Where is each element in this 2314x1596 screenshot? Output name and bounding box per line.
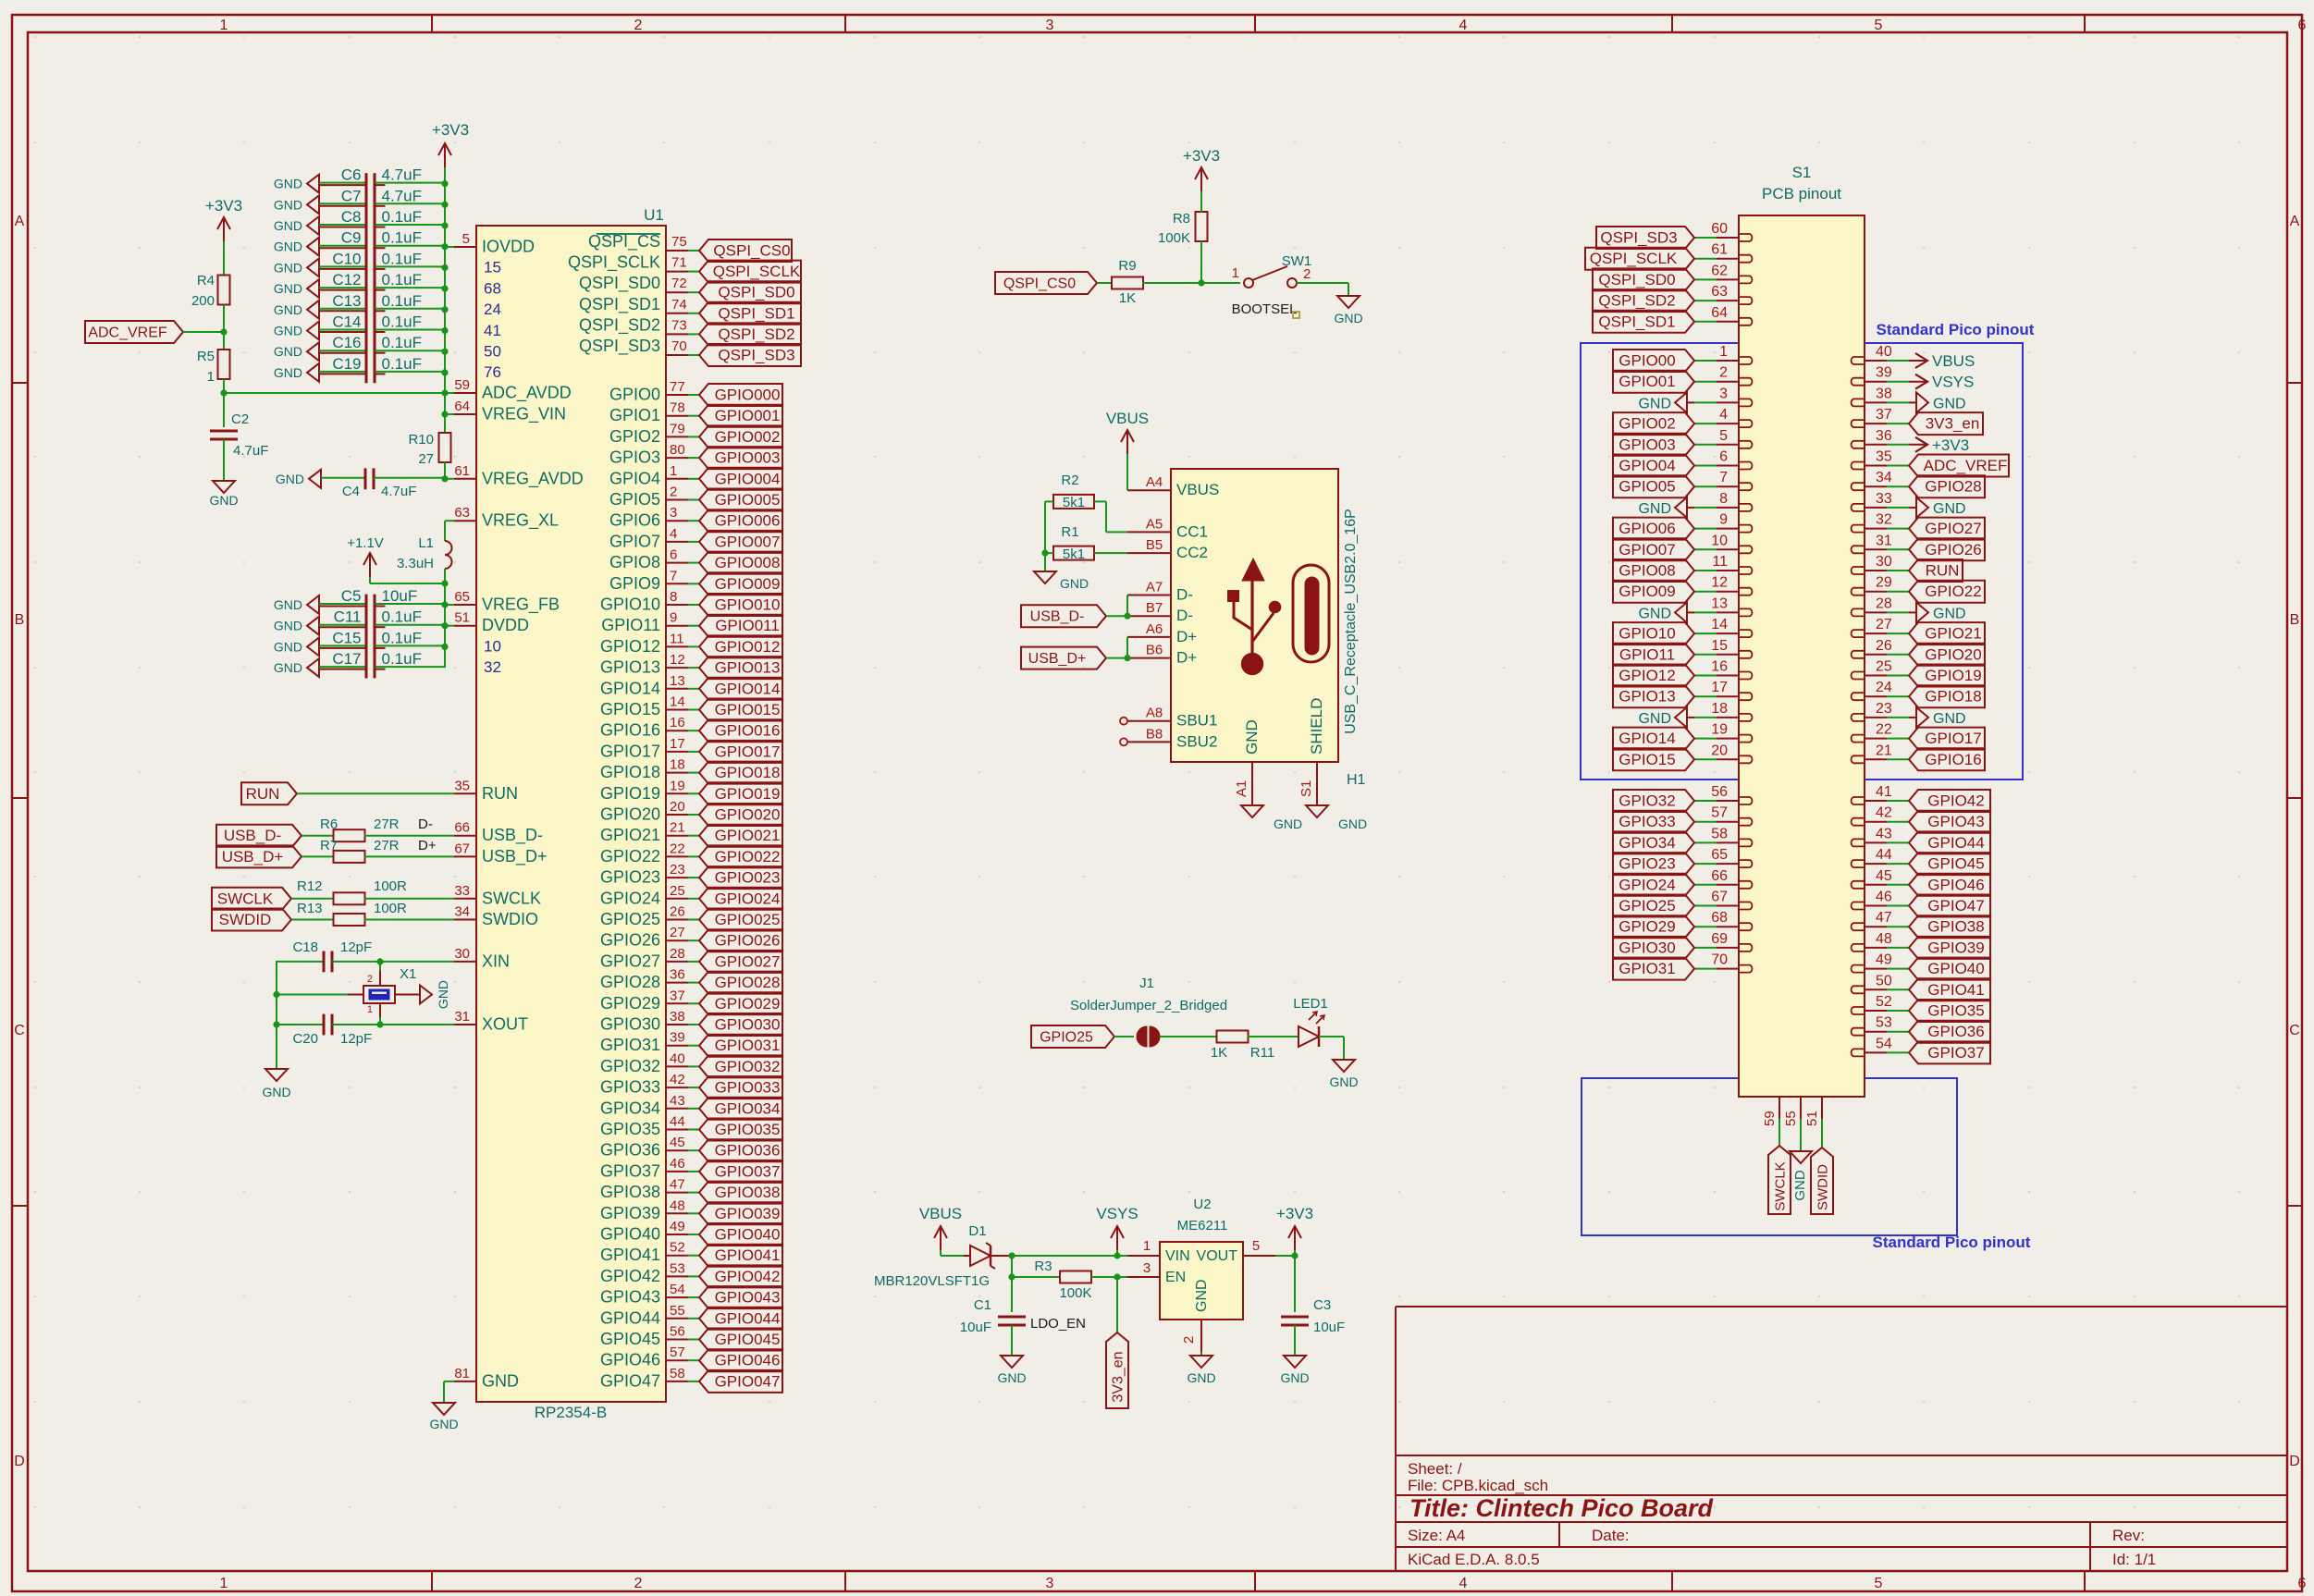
svg-text:34: 34 xyxy=(454,904,470,920)
svg-text:GPIO037: GPIO037 xyxy=(715,1162,781,1180)
U1 pin 35 RUN xyxy=(454,792,476,794)
svg-text:27R: 27R xyxy=(374,816,400,832)
svg-text:GPIO5: GPIO5 xyxy=(609,490,660,509)
svg-text:GND: GND xyxy=(274,597,302,612)
U2 pin 5 VOUT xyxy=(1243,1255,1275,1257)
svg-text:GPIO047: GPIO047 xyxy=(715,1372,781,1390)
svg-text:QSPI_SD0: QSPI_SD0 xyxy=(1598,271,1675,289)
svg-text:CC2: CC2 xyxy=(1176,544,1208,561)
svg-text:R12: R12 xyxy=(297,878,323,894)
svg-text:GPIO11: GPIO11 xyxy=(601,616,660,634)
svg-text:59: 59 xyxy=(454,377,470,393)
svg-text:1K: 1K xyxy=(1211,1045,1227,1061)
svg-text:QSPI_SD1: QSPI_SD1 xyxy=(718,304,794,322)
U1 pin 57 GPIO46 with label GPIO046 xyxy=(666,1359,688,1361)
svg-text:GPIO0: GPIO0 xyxy=(609,386,660,404)
H1 pin A1 GND xyxy=(1251,762,1253,805)
svg-text:46: 46 xyxy=(670,1156,685,1172)
S1 pin 42 label GPIO43 xyxy=(1865,821,1887,823)
U1 pin 75 QSPI_CS with label QSPI_CS0 xyxy=(666,250,688,252)
svg-text:A7: A7 xyxy=(1146,580,1163,595)
U1 pin 14 GPIO15 with label GPIO015 xyxy=(666,709,688,711)
svg-text:VBUS: VBUS xyxy=(1932,352,1975,370)
U1 pin 63 VREG_XL xyxy=(454,520,476,522)
svg-text:QSPI_CS0: QSPI_CS0 xyxy=(1003,276,1076,292)
U1 pin 38 GPIO30 with label GPIO030 xyxy=(666,1024,688,1025)
U1 pin 73 QSPI_SD2 with label QSPI_SD2 xyxy=(666,333,688,335)
svg-text:GPIO001: GPIO001 xyxy=(715,407,781,424)
svg-text:GPIO012: GPIO012 xyxy=(715,638,781,656)
svg-text:11: 11 xyxy=(1712,554,1728,570)
svg-text:75: 75 xyxy=(671,234,687,250)
svg-text:R2: R2 xyxy=(1061,473,1078,488)
svg-text:32: 32 xyxy=(1876,512,1892,528)
U1 pin 46 GPIO37 with label GPIO037 xyxy=(666,1171,688,1172)
resistor R3 100K xyxy=(1060,1271,1091,1283)
svg-text:GPIO040: GPIO040 xyxy=(715,1226,781,1244)
svg-text:GPIO16: GPIO16 xyxy=(1925,751,1981,768)
svg-text:R3: R3 xyxy=(1034,1258,1052,1274)
svg-text:C8: C8 xyxy=(341,208,362,226)
S1 pin 37 label 3V3_en xyxy=(1865,423,1887,424)
svg-text:55: 55 xyxy=(670,1303,685,1319)
wire VREG_VIN row xyxy=(445,413,454,415)
S1 pin 55 GND xyxy=(1800,1097,1802,1119)
capacitor C13 0.1uF xyxy=(307,301,319,319)
inductor L1 3.3uH xyxy=(445,541,452,569)
svg-text:GND: GND xyxy=(1194,1279,1210,1312)
blue box Standard Pico pinout (top) xyxy=(1581,343,2023,780)
label ADC_VREF xyxy=(85,321,183,343)
svg-text:1: 1 xyxy=(207,369,215,385)
svg-text:63: 63 xyxy=(454,505,470,521)
label 3V3_en (vertical) xyxy=(1106,1332,1128,1408)
svg-text:GPIO029: GPIO029 xyxy=(715,995,781,1013)
H1 no-connect SBU2 xyxy=(1120,738,1127,745)
svg-text:11: 11 xyxy=(670,631,684,646)
svg-text:GPIO05: GPIO05 xyxy=(1619,478,1675,496)
svg-text:Date:: Date: xyxy=(1592,1527,1630,1544)
svg-text:C13: C13 xyxy=(332,292,361,310)
svg-text:GPIO31: GPIO31 xyxy=(600,1036,660,1054)
svg-text:48: 48 xyxy=(670,1197,685,1213)
S1 pin 27 label GPIO21 xyxy=(1865,632,1887,634)
svg-text:VSYS: VSYS xyxy=(1932,374,1974,391)
svg-text:10uF: 10uF xyxy=(382,587,418,605)
svg-text:78: 78 xyxy=(670,400,685,416)
svg-text:GPIO8: GPIO8 xyxy=(609,553,660,571)
U1 pin 47 GPIO38 with label GPIO038 xyxy=(666,1192,688,1194)
S1 pin 50 label GPIO41 xyxy=(1865,988,1887,990)
svg-text:GPIO021: GPIO021 xyxy=(715,827,781,844)
svg-text:73: 73 xyxy=(671,317,687,333)
S1 pin 57 label GPIO33 xyxy=(1717,821,1739,823)
wire R5 to ADC_AVDD xyxy=(223,379,225,393)
S1 pin 6 label GPIO04 xyxy=(1717,465,1739,467)
svg-text:GPIO034: GPIO034 xyxy=(715,1099,781,1117)
power +3V3 (R4) xyxy=(223,217,225,241)
svg-text:12pF: 12pF xyxy=(340,1031,372,1047)
svg-text:GPIO07: GPIO07 xyxy=(1619,541,1675,559)
U1 pin 28 GPIO27 with label GPIO027 xyxy=(666,961,688,963)
wire EN to 3V3_en xyxy=(1116,1277,1118,1332)
svg-text:GND: GND xyxy=(274,281,302,296)
svg-text:MBR120VLSFT1G: MBR120VLSFT1G xyxy=(874,1273,990,1289)
U1 pin 53 GPIO42 with label GPIO042 xyxy=(666,1275,688,1277)
S1 pin 10 label GPIO07 xyxy=(1717,548,1739,550)
svg-text:25: 25 xyxy=(670,883,685,899)
svg-text:1: 1 xyxy=(670,463,677,479)
U1 pin 64 VREG_VIN xyxy=(454,413,476,415)
svg-text:GPIO14: GPIO14 xyxy=(600,679,660,697)
svg-text:GND: GND xyxy=(209,493,238,508)
wire C1 down xyxy=(1011,1277,1013,1312)
crystal left wire xyxy=(277,994,348,996)
svg-text:GPIO9: GPIO9 xyxy=(609,574,660,593)
svg-text:64: 64 xyxy=(454,399,470,414)
S1 pin 38 ground xyxy=(1865,401,1887,403)
svg-text:X1: X1 xyxy=(400,966,416,982)
U1 pin 70 QSPI_SD3 with label QSPI_SD3 xyxy=(666,354,688,356)
svg-text:GPIO03: GPIO03 xyxy=(1619,436,1675,453)
S1 pin 11 label GPIO08 xyxy=(1717,570,1739,571)
label SWDID (U1) xyxy=(212,909,291,931)
svg-text:GPIO025: GPIO025 xyxy=(715,911,781,928)
svg-text:GPIO47: GPIO47 xyxy=(1927,897,1984,915)
svg-text:Id: 1/1: Id: 1/1 xyxy=(2112,1551,2156,1568)
svg-text:GPIO29: GPIO29 xyxy=(1619,918,1675,936)
svg-text:GPIO013: GPIO013 xyxy=(715,659,781,677)
svg-text:GPIO25: GPIO25 xyxy=(1040,1030,1093,1046)
svg-text:27R: 27R xyxy=(374,838,400,853)
svg-text:67: 67 xyxy=(1711,890,1728,905)
svg-text:GPIO15: GPIO15 xyxy=(600,700,660,718)
svg-text:GPIO11: GPIO11 xyxy=(1619,645,1675,663)
svg-text:D+: D+ xyxy=(1176,628,1197,645)
svg-text:GPIO20: GPIO20 xyxy=(1925,645,1981,663)
svg-text:43: 43 xyxy=(1876,826,1892,841)
label SWCLK (U1) xyxy=(212,888,291,910)
S1 pin 12 label GPIO09 xyxy=(1717,591,1739,593)
svg-text:GPIO031: GPIO031 xyxy=(715,1037,781,1054)
svg-text:GPIO028: GPIO028 xyxy=(715,974,781,991)
svg-text:File: CPB.kicad_sch: File: CPB.kicad_sch xyxy=(1408,1477,1548,1494)
svg-text:GPIO043: GPIO043 xyxy=(715,1289,781,1307)
svg-text:RP2354-B: RP2354-B xyxy=(535,1404,607,1421)
svg-text:GND: GND xyxy=(274,639,302,654)
svg-text:0.1uF: 0.1uF xyxy=(382,355,422,373)
svg-text:A6: A6 xyxy=(1146,621,1163,637)
U1 pin 33 SWCLK xyxy=(454,898,476,900)
svg-text:68: 68 xyxy=(1711,910,1728,926)
svg-text:GPIO45: GPIO45 xyxy=(1927,855,1984,873)
svg-text:GPIO00: GPIO00 xyxy=(1619,352,1675,370)
svg-text:GPIO039: GPIO039 xyxy=(715,1205,781,1222)
svg-text:2: 2 xyxy=(1181,1336,1197,1344)
switch SW1 BOOTSEL xyxy=(1244,278,1253,288)
wire VBUS to D1 xyxy=(940,1250,942,1256)
svg-text:SHIELD: SHIELD xyxy=(1308,698,1325,755)
svg-text:GPIO26: GPIO26 xyxy=(1925,541,1981,559)
svg-text:GPIO02: GPIO02 xyxy=(1619,415,1675,433)
crystal riser wire xyxy=(276,961,277,1069)
svg-text:D-: D- xyxy=(1176,586,1193,604)
S1 pin 2 label GPIO01 xyxy=(1717,381,1739,383)
svg-text:69: 69 xyxy=(1711,931,1728,947)
U1 pin 81 GND xyxy=(454,1381,476,1382)
svg-text:0.1uF: 0.1uF xyxy=(382,292,422,310)
svg-text:1: 1 xyxy=(1232,265,1239,281)
svg-text:77: 77 xyxy=(670,379,685,395)
svg-text:GPIO09: GPIO09 xyxy=(1619,583,1675,600)
svg-text:41: 41 xyxy=(484,322,501,339)
svg-text:BOOTSEL: BOOTSEL xyxy=(1232,301,1298,317)
svg-text:2: 2 xyxy=(634,1576,643,1591)
wire USB_D- xyxy=(1106,615,1127,617)
svg-text:GPIO27: GPIO27 xyxy=(600,951,660,970)
H1 pin A7 D- xyxy=(1127,595,1171,596)
wire VBUS xyxy=(1126,454,1128,490)
wire down to C2 xyxy=(223,393,225,427)
U1 pin 54 GPIO43 with label GPIO043 xyxy=(666,1296,688,1298)
svg-text:GPIO45: GPIO45 xyxy=(600,1330,660,1348)
S1 pin 69 label GPIO30 xyxy=(1717,947,1739,949)
svg-text:GPIO39: GPIO39 xyxy=(600,1204,660,1222)
wire GPIO25 to J1 xyxy=(1114,1036,1134,1037)
U1 pin 12 GPIO13 with label GPIO013 xyxy=(666,667,688,669)
svg-text:21: 21 xyxy=(1876,743,1892,758)
capacitor C3 10uF xyxy=(1281,1316,1309,1319)
capacitor C12 0.1uF xyxy=(307,279,319,298)
svg-text:8: 8 xyxy=(670,589,677,605)
svg-text:24: 24 xyxy=(484,301,501,318)
svg-text:GPIO24: GPIO24 xyxy=(600,889,660,907)
svg-text:QSPI_SD1: QSPI_SD1 xyxy=(1598,313,1675,330)
svg-text:41: 41 xyxy=(1876,784,1892,800)
wire C1 to GND xyxy=(1011,1325,1013,1356)
svg-text:GPIO25: GPIO25 xyxy=(1619,897,1675,915)
svg-text:15: 15 xyxy=(484,259,501,276)
svg-text:VREG_AVDD: VREG_AVDD xyxy=(482,469,584,488)
svg-text:VIN: VIN xyxy=(1165,1248,1190,1264)
svg-text:20: 20 xyxy=(670,799,685,815)
ground (CC pulldown) xyxy=(1034,571,1056,583)
svg-text:C6: C6 xyxy=(341,166,362,184)
svg-text:L1: L1 xyxy=(418,535,434,551)
svg-text:10: 10 xyxy=(484,637,501,655)
S1 pin 33 ground xyxy=(1865,507,1887,509)
resistor R9 1K xyxy=(1112,277,1143,289)
wire bus to VREG xyxy=(444,373,446,433)
H1 no-connect SBU1 xyxy=(1120,718,1127,725)
svg-text:GPIO045: GPIO045 xyxy=(715,1331,781,1348)
power +3V3 (bootsel) xyxy=(1200,167,1202,191)
wire crystal bottom xyxy=(379,1017,381,1025)
USB logo xyxy=(1241,653,1263,675)
U1 pin 5 IOVDD xyxy=(454,246,476,248)
H1 pin A8 SBU1 xyxy=(1127,720,1171,722)
svg-text:VREG_VIN: VREG_VIN xyxy=(482,405,566,424)
svg-text:GPIO018: GPIO018 xyxy=(715,764,781,781)
svg-text:5: 5 xyxy=(1252,1238,1260,1254)
S1 pin 64 label QSPI_SD1 xyxy=(1717,321,1739,323)
svg-text:GPIO006: GPIO006 xyxy=(715,512,781,530)
svg-text:S1: S1 xyxy=(1299,780,1314,797)
wire VOUT xyxy=(1275,1255,1295,1257)
svg-text:SWCLK: SWCLK xyxy=(482,889,541,907)
svg-text:B7: B7 xyxy=(1146,600,1163,616)
resistor R12 100R xyxy=(291,898,334,900)
S1 pin 65 label GPIO23 xyxy=(1717,863,1739,865)
diode D1 MBR120VLSFT1G xyxy=(970,1246,991,1266)
svg-text:39: 39 xyxy=(1876,365,1892,381)
S1 pin 66 label GPIO24 xyxy=(1717,884,1739,886)
svg-text:GND: GND xyxy=(274,619,302,633)
svg-text:4.7uF: 4.7uF xyxy=(233,443,268,459)
U1 pin 72 QSPI_SD0 with label QSPI_SD0 xyxy=(666,291,688,293)
S1 pin 48 label GPIO39 xyxy=(1865,947,1887,949)
ground (crystal caps) xyxy=(265,1069,288,1081)
svg-text:GND: GND xyxy=(1274,816,1302,831)
U1 pin 51 DVDD xyxy=(454,625,476,627)
svg-text:GPIO007: GPIO007 xyxy=(715,533,781,550)
svg-text:A5: A5 xyxy=(1146,516,1163,532)
svg-text:30: 30 xyxy=(454,946,470,962)
svg-text:B6: B6 xyxy=(1146,643,1163,658)
svg-text:GPIO24: GPIO24 xyxy=(1619,876,1675,893)
svg-text:9: 9 xyxy=(670,610,677,626)
svg-text:18: 18 xyxy=(1711,701,1728,717)
S1 pin 3 ground xyxy=(1717,401,1739,403)
svg-text:GPIO36: GPIO36 xyxy=(1927,1023,1984,1040)
svg-text:10uF: 10uF xyxy=(1313,1320,1345,1335)
svg-text:D: D xyxy=(14,1454,25,1469)
wire U2 GND down xyxy=(1200,1352,1202,1356)
svg-text:RUN: RUN xyxy=(1926,562,1960,580)
U1 pin 19 GPIO19 with label GPIO019 xyxy=(666,792,688,794)
svg-text:GPIO020: GPIO020 xyxy=(715,806,781,824)
svg-text:6: 6 xyxy=(670,547,677,563)
S1 pin 46 label GPIO47 xyxy=(1865,905,1887,907)
svg-text:SWCLK: SWCLK xyxy=(217,890,274,907)
S1 pin 23 ground xyxy=(1865,717,1887,718)
svg-text:GND: GND xyxy=(1933,501,1966,517)
S1 pin 16 label GPIO12 xyxy=(1717,675,1739,677)
svg-text:SWCLK: SWCLK xyxy=(1773,1161,1789,1210)
S1 pin 58 label GPIO34 xyxy=(1717,841,1739,843)
svg-text:79: 79 xyxy=(670,421,685,436)
title block xyxy=(1395,1307,1397,1571)
U1 pin 3 GPIO6 with label GPIO006 xyxy=(666,520,688,522)
svg-text:5k1: 5k1 xyxy=(1063,546,1085,562)
S1 pin 24 label GPIO18 xyxy=(1865,695,1887,697)
svg-text:45: 45 xyxy=(670,1135,685,1150)
svg-text:GPIO34: GPIO34 xyxy=(600,1099,660,1117)
svg-text:C10: C10 xyxy=(332,250,361,267)
svg-text:1: 1 xyxy=(1143,1238,1151,1254)
svg-text:QSPI_SD0: QSPI_SD0 xyxy=(718,284,794,301)
frame reference labels xyxy=(431,15,433,32)
capacitor C10 0.1uF xyxy=(307,258,319,276)
svg-text:43: 43 xyxy=(670,1093,685,1109)
wire to R9 xyxy=(1097,282,1113,284)
S1 pin 4 label GPIO02 xyxy=(1717,423,1739,424)
U1 pin 13 GPIO14 with label GPIO014 xyxy=(666,688,688,690)
svg-text:GPIO3: GPIO3 xyxy=(609,448,660,467)
svg-text:22: 22 xyxy=(670,841,685,856)
svg-text:Standard Pico pinout: Standard Pico pinout xyxy=(1873,1234,2031,1251)
svg-text:21: 21 xyxy=(670,820,685,836)
svg-text:GPIO36: GPIO36 xyxy=(600,1141,660,1160)
U1 pin 43 GPIO34 with label GPIO034 xyxy=(666,1108,688,1110)
svg-text:B: B xyxy=(15,612,25,628)
wire LED1 to GND xyxy=(1319,1036,1344,1037)
svg-text:DVDD: DVDD xyxy=(482,616,529,634)
S1 pin 43 label GPIO44 xyxy=(1865,841,1887,843)
svg-text:VBUS: VBUS xyxy=(1106,410,1149,427)
S1 pin 51 SWDID xyxy=(1821,1097,1823,1119)
U1 pin 66 USB_D- xyxy=(454,835,476,837)
svg-text:C2: C2 xyxy=(231,411,249,427)
svg-text:R5: R5 xyxy=(197,349,215,364)
svg-text:61: 61 xyxy=(454,463,470,479)
svg-text:QSPI_SD0: QSPI_SD0 xyxy=(579,274,660,293)
H1 pin A4 VBUS xyxy=(1127,489,1171,491)
svg-text:+3V3: +3V3 xyxy=(205,197,242,215)
wire R1 left xyxy=(1045,552,1053,554)
svg-text:6: 6 xyxy=(1719,449,1728,465)
resistor R10 xyxy=(439,433,451,462)
svg-text:100K: 100K xyxy=(1059,1285,1091,1301)
svg-text:10uF: 10uF xyxy=(960,1320,991,1335)
ground (S1) xyxy=(1790,1151,1812,1163)
svg-text:GPIO35: GPIO35 xyxy=(600,1120,660,1138)
wire VSYS xyxy=(1116,1250,1118,1256)
svg-text:6: 6 xyxy=(2298,18,2307,33)
S1 pin 47 label GPIO38 xyxy=(1865,926,1887,927)
svg-text:70: 70 xyxy=(671,338,687,354)
S1 pin 52 label GPIO35 xyxy=(1865,1010,1887,1012)
IC U2 ME6211 body xyxy=(1160,1242,1243,1320)
svg-text:H1: H1 xyxy=(1347,772,1366,788)
capacitor C8 0.1uF xyxy=(307,216,319,235)
svg-text:ADC_VREF: ADC_VREF xyxy=(88,325,167,341)
wire VREG_XL to L1 xyxy=(445,520,454,522)
svg-text:55: 55 xyxy=(1783,1111,1799,1126)
svg-text:GPIO010: GPIO010 xyxy=(715,596,781,614)
svg-text:C15: C15 xyxy=(332,629,361,646)
U1 pin 8 GPIO10 with label GPIO010 xyxy=(666,604,688,606)
U1 pin 44 GPIO35 with label GPIO035 xyxy=(666,1129,688,1131)
svg-text:44: 44 xyxy=(1876,847,1892,863)
svg-text:USB_D+: USB_D+ xyxy=(222,848,284,866)
svg-text:4.7uF: 4.7uF xyxy=(381,484,416,499)
svg-text:GND: GND xyxy=(1638,501,1671,517)
svg-text:GPIO017: GPIO017 xyxy=(715,743,781,760)
svg-text:46: 46 xyxy=(1876,890,1892,905)
svg-text:16: 16 xyxy=(670,715,685,730)
svg-text:GPIO044: GPIO044 xyxy=(715,1309,781,1327)
U1 pin 25 GPIO24 with label GPIO024 xyxy=(666,898,688,900)
svg-text:2: 2 xyxy=(1303,266,1311,282)
svg-text:GPIO18: GPIO18 xyxy=(1925,688,1981,706)
svg-text:RUN: RUN xyxy=(482,784,518,803)
svg-text:28: 28 xyxy=(670,946,685,962)
svg-text:5: 5 xyxy=(462,231,470,247)
svg-text:3: 3 xyxy=(1143,1260,1151,1276)
svg-text:R4: R4 xyxy=(197,273,215,289)
svg-text:C19: C19 xyxy=(332,355,361,373)
